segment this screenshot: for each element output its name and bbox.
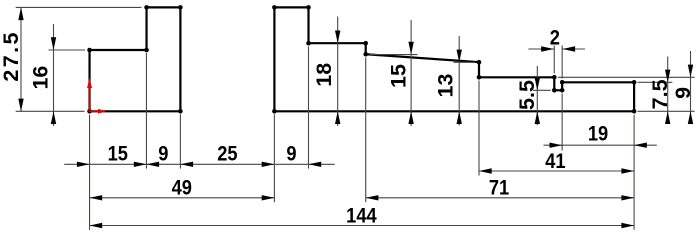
svg-text:15: 15 (387, 64, 411, 88)
svg-text:7.5: 7.5 (648, 79, 672, 109)
dimension 19 (544, 122, 657, 148)
dimension 41 (479, 149, 634, 173)
bottom chain dimension line 15 9 25 9 (64, 142, 335, 167)
profile left shape vertex points (87, 5, 182, 114)
svg-text:13: 13 (434, 74, 458, 98)
dimension 49 (90, 176, 275, 200)
svg-text:19: 19 (588, 122, 608, 146)
svg-text:144: 144 (346, 204, 376, 228)
svg-text:2: 2 (550, 26, 560, 50)
dimension 16 (29, 24, 57, 126)
svg-text:9: 9 (158, 142, 168, 166)
extension lines vertical (146, 46, 562, 203)
dimension 2 (groove width) (528, 26, 585, 52)
dimension 27.5 (0, 7, 24, 111)
dimension 18 (312, 17, 340, 127)
svg-text:15: 15 (108, 142, 128, 166)
extension line at origin x (brown) (89, 115, 91, 230)
dimension 71 (366, 176, 634, 200)
origin marker red axes (87, 77, 106, 114)
svg-text:18: 18 (312, 63, 336, 87)
svg-text:41: 41 (545, 149, 565, 173)
dimension 144 (90, 204, 635, 228)
svg-text:49: 49 (172, 176, 192, 200)
profile right shape outline (274, 7, 634, 111)
svg-text:71: 71 (489, 176, 509, 200)
dimension 13 (slant right end height) (434, 36, 462, 126)
svg-text:9: 9 (671, 87, 695, 99)
dimension 9 (right height) (671, 51, 695, 124)
svg-text:27.5: 27.5 (0, 30, 23, 81)
profile right shape vertex points (272, 5, 636, 114)
dimension 5.5 (groove depth) (515, 66, 540, 125)
dimension 7.5 (648, 57, 672, 125)
svg-text:25: 25 (217, 142, 237, 166)
svg-text:5.5: 5.5 (515, 80, 539, 110)
profile left shape outline (90, 7, 181, 111)
extension lines horizontal (16, 7, 695, 111)
svg-text:16: 16 (29, 66, 53, 90)
dimension 15 (slant left end height) (387, 20, 414, 126)
extension line at right end x (brown) (633, 115, 635, 230)
svg-text:9: 9 (286, 142, 296, 166)
